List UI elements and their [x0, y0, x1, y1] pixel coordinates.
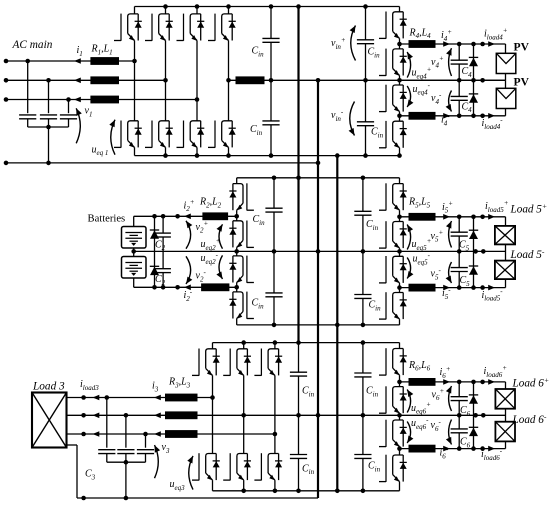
node S3 leg2 top rail [241, 340, 246, 345]
inductor R4L4 plus [409, 40, 436, 48]
svg-text:AC main: AC main [12, 39, 53, 51]
svg-text:Load 5+​: Load 5+​ [510, 201, 548, 215]
current arrow i6+ [443, 379, 450, 385]
node Cin left midpoint [269, 78, 274, 83]
capacitor C4 lower [451, 95, 468, 97]
wire C3 drop 2 [125, 415, 127, 447]
node port4- cap tap [457, 114, 462, 119]
node Cin mid-left mid [272, 249, 277, 254]
wire load6+ drop [505, 382, 507, 389]
wire C2 upper column [162, 216, 164, 233]
capacitor Cin top-right upper [357, 39, 374, 41]
capacitor C5 upper [451, 231, 468, 233]
wire load3 phase 1 [67, 397, 213, 399]
svg-text:Load 6+​: Load 6+​ [512, 375, 550, 389]
node AC ground to neutral bus [316, 161, 321, 166]
voltage arrow v5+ [449, 221, 452, 248]
wire S3 bottom rail [213, 490, 400, 492]
transistor S5 upper-2 [399, 217, 401, 222]
wire battery bottom stub [133, 278, 135, 287]
node AC terminal 2 [4, 78, 9, 83]
node filter star [46, 125, 51, 130]
voltage arrow ueq4- [407, 86, 410, 107]
wire filter star rail [28, 126, 69, 128]
node filter tap 2 [46, 78, 51, 83]
node S3 leg2 bottom rail [241, 489, 246, 494]
node load3 tap3 [81, 432, 86, 437]
current arrow i3 phase3 [154, 431, 161, 437]
node leg1 midpoint [132, 59, 137, 64]
node Cin bot-right mid [361, 413, 366, 418]
svg-text:PV: PV [514, 41, 530, 54]
node C3 neutral [124, 496, 129, 501]
svg-text:Load 3: Load 3 [32, 381, 65, 393]
capacitor Cin bottom upper [290, 371, 307, 373]
node load5 leg mid+ [397, 215, 402, 220]
voltage arrow vin+ [351, 26, 356, 61]
node port5- load tap [480, 285, 485, 290]
transistor S6 lower-2 [399, 449, 401, 455]
current arrow i4+ [443, 41, 450, 47]
node port4- load tap [480, 114, 485, 119]
node load3 tap2 [81, 413, 86, 418]
current arrow i5+ [443, 214, 450, 220]
wire bottom neutral line [77, 497, 318, 499]
node battery leg neutral [234, 249, 239, 254]
transistor S2 battery leg A [236, 178, 238, 184]
transistor S1 top leg3 [196, 7, 198, 14]
inductor R6L6 plus [409, 378, 436, 386]
node leg3 midpoint [195, 97, 200, 102]
wire C3 star rail [107, 461, 146, 463]
wire Cin column bot-right upper [362, 343, 364, 373]
node AC terminal 1 [4, 59, 9, 64]
node filter ground [46, 161, 51, 166]
transistor S4 upper-2 [399, 44, 401, 49]
node bw1 diode tap [152, 214, 157, 219]
transistor S5 lower-1 [399, 251, 401, 256]
capacitor Cin top-left lower [262, 120, 279, 122]
wire port6+ line [400, 381, 506, 383]
node load6 leg mid+ [397, 380, 402, 385]
node port6- diode tap [471, 446, 476, 451]
wire diode4 lower column [473, 80, 475, 116]
wire AC ground line [6, 162, 318, 164]
svg-text:Load 5-​: Load 5-​ [510, 247, 545, 261]
current arrow i1 phase 2 [74, 78, 81, 84]
node Cin left bottom [269, 153, 274, 158]
capacitor C3 a [98, 449, 115, 451]
transistor S6 upper-1 [399, 343, 401, 349]
node PV leg midpoint+ [397, 42, 402, 47]
node battery mid [131, 249, 136, 254]
capacitor Cin bot-right upper [354, 372, 371, 374]
wire PV1 drop [505, 44, 507, 53]
wire filter drop phase 1 [27, 61, 29, 113]
current arrow iload4- [488, 113, 495, 119]
wire load6 mid link [505, 409, 507, 422]
wire neutral link line [229, 79, 506, 81]
transistor S1 bottom leg1 [134, 61, 136, 121]
wire C6 upper column [458, 382, 460, 397]
transistor S3 bottom leg1 [212, 398, 214, 454]
load 5- box [495, 261, 515, 280]
current arrow iload5+ [488, 214, 495, 220]
node Cin right midpoint [363, 78, 368, 83]
voltage arrow v5- [449, 262, 452, 283]
node C3 star [124, 460, 129, 465]
current arrow iload6+ [488, 379, 495, 385]
wire diode5 upper column [473, 217, 475, 252]
capacitor filter 1 [19, 114, 36, 116]
node leg3 top rail [195, 4, 200, 9]
inductor R3L3 phase1 [165, 394, 198, 402]
node battery leg mid- [234, 285, 239, 290]
wire C4 upper column [458, 44, 460, 60]
node S3 bottom rail at Cin column [296, 489, 301, 494]
wire load3 phase 3 [67, 433, 275, 435]
transistor S4 lower-2 [399, 116, 401, 121]
node bw1 tap3 [175, 214, 180, 219]
inductor R4L4 minus [409, 112, 436, 120]
node PV leg neutral [397, 78, 402, 83]
node leg4 midpoint [226, 78, 231, 83]
node port6+ load tap [480, 380, 485, 385]
wire phase 1 [6, 60, 135, 62]
node S2 bottom rail at DC- [335, 323, 340, 328]
wire phase 3 [6, 99, 197, 101]
diode D4 upper [469, 56, 478, 58]
wire diode6 lower column [473, 415, 475, 448]
wire filter stub 3 [68, 119, 70, 127]
node port5+ cap tap [457, 215, 462, 220]
wire Cin column bot-right lower [362, 415, 364, 454]
voltage arrow v2- [186, 256, 191, 284]
capacitor C3 b [117, 449, 134, 451]
transistor S1 bottom leg3 [196, 100, 198, 121]
node port5- cap tap [457, 285, 462, 290]
voltage arrow ueq2+ [219, 224, 223, 248]
current arrow iload5- [488, 285, 495, 291]
inductor neutral link [236, 76, 265, 84]
node Cin right bottom [363, 153, 368, 158]
wire Cin column top-left lower [270, 80, 272, 121]
transistor S5 lower-2 [399, 288, 401, 293]
capacitor C4 upper [451, 59, 468, 61]
node S2 mid rail at neutral bus [316, 249, 321, 254]
node leg4 top rail [226, 4, 231, 9]
voltage arrow ueq1 [111, 120, 115, 155]
wire port5+ line [400, 216, 506, 218]
wire C6 lower column [458, 415, 460, 429]
transistor S1 bottom leg4 [228, 80, 230, 121]
wire diode2 lower column [154, 251, 156, 287]
wire Cin column mid-right lower [362, 251, 364, 294]
node top rail at DC+ bus [296, 4, 301, 9]
capacitor Cin mid-left upper [265, 207, 282, 209]
transistor S1 top leg1 [134, 7, 136, 14]
load 5+ box [495, 226, 515, 245]
inductor R5L5 minus [409, 284, 436, 292]
node Cin right top rail [363, 4, 368, 9]
voltage arrow ueq6- [407, 422, 410, 444]
wire C2 lower column [162, 251, 164, 268]
voltage arrow ueq5- [407, 258, 410, 279]
node C3 tap1 [105, 395, 110, 400]
wire DC+ bus [297, 7, 299, 343]
voltage arrow v4- [449, 91, 452, 112]
node leg2 bottom rail [163, 153, 168, 158]
capacitor Cin mid-right lower [354, 294, 371, 296]
node port6- load tap [480, 446, 485, 451]
node mid5 cap tap [457, 249, 462, 254]
node Cin left top rail [269, 4, 274, 9]
wire filter to ground [48, 127, 50, 163]
node Cin mid-left bottom [272, 323, 277, 328]
node Cin mid-left top [272, 176, 277, 181]
transistor S2 battery leg B [236, 216, 238, 221]
photovoltaic PV2 box [496, 88, 516, 108]
node leg2 midpoint [163, 78, 168, 83]
node C3 tap3 [143, 432, 148, 437]
wire Cin column mid-left lower [273, 251, 275, 293]
capacitor C6 upper [451, 396, 468, 398]
diode D5 upper [469, 229, 478, 231]
wire port5- line [400, 287, 506, 289]
node port4+ cap tap [457, 42, 462, 47]
voltage arrow v2+ [186, 221, 191, 249]
voltage arrow ueq5+ [407, 225, 410, 250]
voltage arrow ueq6+ [407, 390, 410, 413]
transistor S3 top leg2 [243, 343, 245, 349]
node bottom neutral tap [81, 496, 86, 501]
wire Cin column mid-right upper [362, 178, 364, 212]
wire Cin column mid-left upper [273, 178, 275, 208]
node port6+ cap tap [457, 380, 462, 385]
wire neutral bus [317, 80, 319, 498]
node mid load tap [480, 78, 485, 83]
capacitor Cin top-left upper [262, 37, 279, 39]
node port5- diode tap [471, 285, 476, 290]
wire S3 top rail [213, 342, 400, 344]
wire S3 mid rail [244, 414, 506, 416]
voltage arrow v4+ [449, 48, 452, 76]
svg-text:PV: PV [514, 76, 530, 89]
wire Cin column bottom lower [298, 415, 300, 454]
wire PV1 to mid [505, 74, 507, 81]
node port6- cap tap [457, 446, 462, 451]
capacitor C6 lower [451, 428, 468, 430]
capacitor C2 lower [155, 268, 171, 270]
wire port6- line [400, 448, 506, 450]
wire S2 bottom rail [237, 324, 400, 326]
wire Cin column bottom upper [298, 343, 300, 373]
wire Cin column top-right upper [365, 7, 367, 40]
wire C4 lower column [458, 80, 460, 96]
wire Cin column top-right lower [365, 80, 367, 122]
battery B2 box [122, 257, 147, 279]
inductor R2L2 plus [202, 212, 228, 220]
battery B1 cells [125, 232, 142, 234]
transistor S2 battery leg C [236, 251, 238, 256]
capacitor Cin mid-left lower [265, 292, 282, 294]
inductor R6L6 minus [409, 445, 436, 453]
current arrow i2- [184, 285, 191, 291]
node leg4 bottom rail [226, 153, 231, 158]
wire DC- bus [336, 156, 338, 491]
current arrow iload3 phase2 [93, 413, 100, 419]
transistor S3 top leg3 [274, 343, 276, 349]
wire filter drop phase 2 [48, 80, 50, 113]
wire S2 mid rail [134, 250, 506, 252]
wire PV2 to port4- [505, 109, 507, 116]
capacitor Cin mid-right upper [354, 210, 371, 212]
wire DC+ top rail section1 [135, 6, 400, 8]
node Cin bot-right bottom [361, 489, 366, 494]
node load5 leg mid- [397, 285, 402, 290]
capacitor filter 3 [60, 114, 77, 116]
node AC terminal 3 [4, 97, 9, 102]
node leg3 bottom rail [195, 153, 200, 158]
node filter tap 3 [66, 97, 71, 102]
node neutral bus start [316, 78, 321, 83]
wire diode6 upper column [473, 382, 475, 415]
node load6 leg mid- [397, 446, 402, 451]
current arrow i3 phase2 [154, 413, 161, 419]
diode D6 lower [469, 426, 478, 428]
node mid cap tap [457, 78, 462, 83]
wire port4+ line [400, 43, 506, 45]
transistor S6 lower-1 [399, 415, 401, 420]
transistor S1 bottom leg2 [165, 80, 167, 121]
node PV leg bottom [397, 153, 402, 158]
node filter tap 1 [25, 59, 30, 64]
wire diode5 lower column [473, 251, 475, 287]
node load5 leg neutral [397, 249, 402, 254]
capacitor C5 lower [451, 267, 468, 269]
node C3 tap2 [124, 413, 129, 418]
node S3 top rail at DC+ [296, 340, 301, 345]
current arrow i3 phase1 [154, 395, 161, 401]
battery B1 box [122, 227, 147, 249]
wire S2 top rail [237, 177, 400, 179]
inductor R3L3 phase2 [165, 411, 198, 419]
voltage arrow v3 [155, 445, 159, 478]
voltage arrow v6- [449, 420, 452, 445]
wire diode2 upper column [154, 216, 156, 251]
node S3 leg3 bottom rail [273, 489, 278, 494]
transistor S5 upper-1 [399, 178, 401, 184]
node mid6 diode tap [473, 413, 478, 418]
voltage arrow v6+ [449, 386, 452, 411]
node load3 tap1 [81, 395, 86, 400]
wire C3 stub 3 [145, 454, 147, 463]
wire load3 neutral stub [67, 444, 78, 446]
wire neutral return corner [317, 497, 319, 499]
capacitor filter 2 [40, 114, 57, 116]
wire diode4 upper column [473, 44, 475, 80]
node mid5 diode tap [473, 249, 478, 254]
node mid6 tap3 [481, 413, 486, 418]
capacitor Cin bottom lower [290, 454, 307, 456]
photovoltaic PV1 box [496, 53, 516, 73]
wire load5- rise [505, 279, 507, 287]
node battery leg mid+ [234, 214, 239, 219]
wire port4- line [400, 115, 506, 117]
wire C5 upper column [458, 217, 460, 232]
transistor S4 lower-1 [399, 80, 401, 85]
node AC terminal 4 [4, 161, 9, 166]
wire bridge bottom rail [135, 155, 400, 157]
diode D5 lower [469, 265, 478, 267]
voltage arrow ueq3 [189, 456, 193, 490]
voltage arrow ueq4+ [407, 52, 410, 78]
capacitor Cin top-right lower [357, 121, 374, 123]
current arrow iload3 phase3 [93, 431, 100, 437]
capacitor C3 c [137, 449, 154, 451]
load 6- box [495, 422, 515, 442]
wire C3 to neutral [125, 462, 127, 498]
load 3 box [32, 393, 67, 448]
current arrow i1 phase 3 [74, 97, 81, 103]
transistor S1 top leg2 [165, 7, 167, 14]
wire PV2 drop [505, 80, 507, 88]
node S3 leg3 midpoint [273, 432, 278, 437]
node port5+ diode tap [471, 215, 476, 220]
current arrow iload4+ [488, 41, 495, 47]
capacitor C2 upper [155, 232, 171, 234]
diode D2 lower [150, 265, 159, 267]
diode D6 upper [469, 394, 478, 396]
voltage arrow ueq2- [219, 255, 223, 279]
node leg2 top rail [163, 4, 168, 9]
wire filter drop phase 3 [68, 100, 70, 114]
node bw2 tap3 [175, 285, 180, 290]
current arrow i6- [443, 446, 450, 452]
node Cin mid-right bottom [361, 323, 366, 328]
wire load5+ drop [505, 217, 507, 226]
node bw1 cap tap [161, 214, 166, 219]
node DC- bus start [335, 153, 340, 158]
wire load6- rise [505, 441, 507, 448]
node port4+ diode tap [471, 42, 476, 47]
node bw2 diode tap [152, 285, 157, 290]
current arrow i5- [443, 285, 450, 291]
node S3 leg3 top rail [273, 340, 278, 345]
transistor S3 bottom leg2 [243, 415, 245, 453]
capacitor Cin bot-right lower [354, 454, 371, 456]
node port4+ load tap [480, 42, 485, 47]
node mid6 cap tap [457, 413, 462, 418]
wire Cin column top-left upper [270, 7, 272, 39]
voltage arrow vin- [350, 102, 355, 136]
transistor S4 upper-1 [399, 7, 401, 12]
node load6 leg neutral [397, 413, 402, 418]
inductor R1L1 phase 1 [90, 57, 119, 65]
wire filter stub 1 [27, 119, 29, 127]
node Cin mid-right top [361, 176, 366, 181]
inductor R5L5 plus [409, 213, 436, 221]
wire battery bottom line [134, 286, 237, 288]
current arrow iload6- [488, 446, 495, 452]
node port5+ load tap [480, 215, 485, 220]
wire filter stub 2 [48, 119, 50, 127]
wire C3 stub 2 [125, 454, 127, 463]
node Cin bottom mid [296, 413, 301, 418]
transistor S6 upper-2 [399, 382, 401, 387]
diode D4 lower [469, 93, 478, 95]
current arrow i1 phase 1 [74, 58, 81, 64]
